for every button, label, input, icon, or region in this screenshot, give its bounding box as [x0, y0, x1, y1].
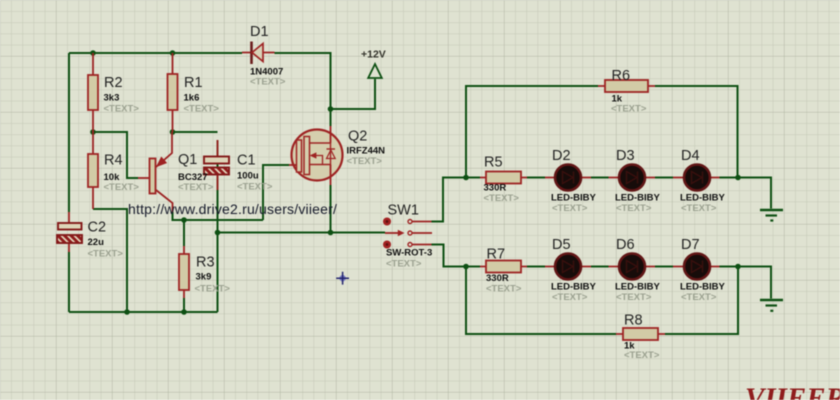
svg-text:<TEXT>: <TEXT> — [178, 182, 214, 193]
svg-text:<TEXT>: <TEXT> — [184, 104, 220, 115]
wire D5 to D6 — [591, 266, 609, 268]
svg-text:<TEXT>: <TEXT> — [347, 156, 383, 167]
label R5 — [484, 155, 520, 205]
svg-text:Q2: Q2 — [348, 129, 367, 145]
label Q2 — [347, 129, 386, 168]
svg-text:IRFZ44N: IRFZ44N — [347, 146, 386, 157]
svg-text:R1: R1 — [184, 75, 203, 91]
svg-text:R6: R6 — [612, 68, 631, 84]
wire R2 bottom to Q1 base — [93, 132, 138, 178]
wire left rail upper — [68, 53, 70, 212]
resistor R5 330R — [480, 172, 527, 184]
wire D3 to D4 — [655, 177, 673, 179]
resistor R6 1k — [598, 80, 655, 92]
svg-text:LED-BIBY: LED-BIBY — [615, 193, 661, 204]
wire Q2 drain from +12V node — [330, 109, 332, 126]
label D7 — [680, 237, 726, 303]
svg-text:<TEXT>: <TEXT> — [552, 292, 588, 303]
svg-text:R2: R2 — [104, 75, 123, 91]
svg-text:<TEXT>: <TEXT> — [104, 104, 140, 115]
label D2 — [551, 148, 597, 214]
svg-text:<TEXT>: <TEXT> — [88, 249, 124, 260]
switch SW1 SW-ROT-3 — [383, 218, 432, 249]
svg-text:C2: C2 — [88, 220, 107, 236]
label D5 — [551, 237, 597, 303]
capacitor C2 22u — [57, 212, 82, 252]
label R8 — [624, 313, 660, 362]
svg-text:<TEXT>: <TEXT> — [195, 284, 231, 295]
label R4 — [104, 153, 140, 194]
wire R7 to D5 — [527, 266, 545, 268]
svg-text:330R: 330R — [486, 273, 509, 284]
wire left rail lower — [68, 252, 70, 312]
resistor R4 — [88, 132, 98, 209]
label R1 — [184, 75, 220, 115]
label R7 — [486, 247, 522, 295]
wire R3 bottom lead — [183, 298, 185, 312]
resistor R1 — [168, 53, 178, 132]
wire top rail — [69, 52, 242, 54]
capacitor C1 100u — [204, 140, 229, 190]
svg-text:D6: D6 — [616, 237, 635, 253]
svg-text:LED-BIBY: LED-BIBY — [615, 282, 661, 293]
label C1 — [237, 153, 273, 193]
svg-text:D4: D4 — [681, 148, 700, 164]
svg-text:3k3: 3k3 — [104, 93, 120, 104]
svg-text:330R: 330R — [484, 183, 507, 194]
LED D2 — [545, 165, 591, 191]
wire R5 to D2 — [527, 177, 545, 179]
wire R6 left riser — [466, 86, 598, 178]
label D6 — [615, 237, 661, 303]
svg-text:LED-BIBY: LED-BIBY — [551, 282, 597, 293]
svg-text:<TEXT>: <TEXT> — [681, 203, 717, 214]
wire D2 to D3 — [591, 177, 609, 179]
svg-text:VIIEER: VIIEER — [745, 383, 840, 400]
label Q1 — [178, 152, 214, 193]
resistor R3 — [179, 246, 189, 298]
wire C1 bottom to bottom rail — [217, 140, 219, 312]
wire Q1 collector to R3/gate row — [173, 212, 264, 220]
resistor R2 — [88, 53, 98, 132]
wire R1 node to C1 top — [173, 131, 218, 133]
ground GND top — [760, 210, 783, 221]
svg-text:LED-BIBY: LED-BIBY — [680, 193, 726, 204]
label C2 — [88, 220, 124, 260]
wire R8 left riser — [466, 267, 616, 335]
label D1 — [250, 24, 286, 88]
wire bottom rail — [69, 311, 218, 313]
resistor R8 1k — [616, 328, 665, 340]
LED D7 — [673, 254, 720, 280]
wire D1 output to corner — [275, 53, 331, 109]
wire source row to SW1 — [218, 232, 386, 234]
wire R4 bottom to bottom rail — [93, 209, 127, 312]
transistor Q2 IRFZ44N — [289, 126, 343, 185]
ground GND bottom — [760, 300, 783, 311]
transistor Q1 BC327 — [138, 132, 173, 212]
svg-text:D2: D2 — [552, 148, 571, 164]
svg-text:<TEXT>: <TEXT> — [486, 284, 522, 295]
svg-text:<TEXT>: <TEXT> — [624, 350, 660, 361]
svg-text:+12V: +12V — [361, 49, 386, 61]
wire D6 to D7 — [655, 266, 673, 268]
svg-text:<TEXT>: <TEXT> — [484, 193, 520, 204]
label D4 — [680, 148, 726, 214]
svg-text:3k9: 3k9 — [196, 272, 212, 283]
svg-text:<TEXT>: <TEXT> — [250, 77, 286, 88]
svg-text:D1: D1 — [250, 24, 269, 40]
svg-text:C1: C1 — [237, 153, 256, 169]
wire top ground branch — [738, 178, 771, 209]
label SW1 — [386, 203, 432, 270]
node junction dots — [90, 50, 741, 315]
wire D7 to bottom ground node — [720, 266, 739, 268]
svg-text:R4: R4 — [104, 153, 123, 169]
svg-text:<TEXT>: <TEXT> — [386, 259, 422, 270]
svg-text:<TEXT>: <TEXT> — [616, 203, 652, 214]
resistor R7 330R — [480, 261, 527, 273]
svg-text:<TEXT>: <TEXT> — [104, 182, 140, 193]
LED D6 — [609, 254, 656, 280]
svg-text:<TEXT>: <TEXT> — [552, 203, 588, 214]
svg-text:<TEXT>: <TEXT> — [611, 104, 647, 115]
LED D3 — [609, 165, 656, 191]
wire R6 right riser — [655, 86, 738, 178]
svg-text:http://www.drive2.ru/users/vii: http://www.drive2.ru/users/viieer/ — [128, 201, 337, 217]
label R3 — [195, 255, 231, 295]
svg-text:D7: D7 — [681, 237, 700, 253]
svg-text:D5: D5 — [552, 237, 571, 253]
wire SW1 bottom contact to R7 row — [432, 245, 481, 267]
wire gate riser — [263, 165, 289, 220]
wire R8 right riser — [665, 267, 738, 335]
svg-text:100u: 100u — [237, 171, 259, 182]
label R2 — [104, 75, 140, 115]
svg-text:Q1: Q1 — [178, 152, 197, 168]
svg-text:R8: R8 — [624, 313, 643, 329]
label R6 — [611, 68, 647, 115]
svg-text:<TEXT>: <TEXT> — [681, 292, 717, 303]
power +12V arrow — [368, 64, 382, 78]
wire SW1 top contact to R5 row — [432, 178, 481, 222]
node origin marker — [336, 272, 349, 285]
svg-text:<TEXT>: <TEXT> — [616, 292, 652, 303]
svg-text:D3: D3 — [616, 148, 635, 164]
svg-text:R3: R3 — [196, 255, 215, 271]
svg-text:LED-BIBY: LED-BIBY — [680, 282, 726, 293]
svg-text:SW1: SW1 — [388, 203, 419, 219]
wire bottom ground branch — [738, 267, 771, 299]
wire to +12V — [331, 79, 376, 109]
svg-text:SW-ROT-3: SW-ROT-3 — [386, 248, 432, 259]
svg-text:R5: R5 — [484, 155, 503, 171]
svg-text:<TEXT>: <TEXT> — [237, 182, 273, 193]
svg-text:LED-BIBY: LED-BIBY — [551, 193, 597, 204]
svg-text:22u: 22u — [88, 237, 105, 248]
svg-text:R7: R7 — [487, 247, 506, 263]
LED D4 — [673, 165, 720, 191]
wire R3 top lead — [183, 220, 185, 246]
svg-text:1k6: 1k6 — [184, 93, 200, 104]
wire D4 to top ground node — [720, 177, 739, 179]
label D3 — [615, 148, 661, 214]
LED D5 — [545, 254, 591, 280]
wire Q2 source down — [330, 185, 332, 233]
diode D1 1N4007 — [242, 42, 275, 65]
